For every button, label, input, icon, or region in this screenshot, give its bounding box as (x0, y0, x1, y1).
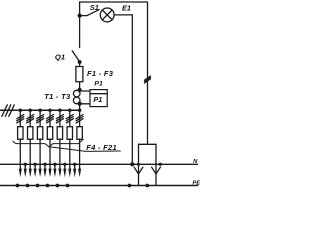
node: PE tap 3 (36, 184, 40, 188)
wire: lamp return vertical (131, 15, 133, 165)
arrow: feeder 7 outgoing (78, 169, 81, 178)
node: busbar junction 2 (28, 108, 32, 112)
wire: feeder drop 4 lower (49, 139, 51, 173)
wire: CT to busbar (79, 104, 81, 110)
node: bridge left drop on N (137, 163, 140, 166)
node: busbar junction 3 (38, 108, 42, 112)
switch S1 blade (87, 10, 99, 16)
wire: tap to switch S1 (80, 15, 87, 17)
wire: feeder drop 1 upper (19, 110, 21, 127)
current transformer T1-T3 (73, 90, 80, 97)
node: PE tap 6 (66, 184, 70, 188)
wire: CT upper tap to meter (80, 90, 90, 92)
underline: F4-F21 label (85, 150, 120, 152)
wire: N tap 2 stem (34, 164, 36, 173)
cable mark: 3-phase slashes on busbar (2, 105, 15, 117)
svg-text:P1: P1 (93, 95, 102, 104)
fuse F4-F21 no.3 (37, 127, 42, 140)
node: N tap 6 (73, 163, 76, 166)
wire: bridge left drop (138, 144, 140, 185)
wire: N tap 3 stem (44, 164, 46, 173)
cable mark: slashes feeder 5 (56, 115, 63, 123)
arrow: open head left (134, 167, 143, 174)
node: N tap 3 (43, 163, 46, 166)
wire: feeder drop 2 upper (29, 110, 31, 127)
arrow: N tap 6 outgoing (73, 169, 76, 178)
leader: F4-F21 label (49, 147, 85, 151)
node: busbar junction 5 (58, 108, 62, 112)
node: PE tap 5 (56, 184, 60, 188)
wire: feeder drop 3 lower (39, 139, 41, 173)
wire: top supply horizontal (80, 1, 148, 3)
wire: feeder drop 3 upper (39, 110, 41, 127)
arrow: N tap 4 outgoing (53, 169, 56, 178)
cable mark: 3-phase slashes on supply line (145, 76, 151, 83)
arrow: feeder 2 outgoing (29, 169, 32, 178)
fuse F4-F21 no.6 (67, 127, 72, 140)
cable mark: slashes feeder 6 (66, 115, 73, 123)
brace: fuse group F4-F21 (13, 139, 83, 146)
node: Q1 lower terminal (78, 60, 82, 64)
node: PE tap 4 (46, 184, 50, 188)
wire: CT lower tap to meter (80, 103, 90, 105)
cable mark: slashes feeder 1 (17, 115, 24, 123)
node: PE junction left of bridge (128, 184, 132, 188)
wire: N tap 5 stem (64, 164, 66, 173)
cable mark: slashes feeder 2 (27, 115, 34, 123)
wire: lamp to right corner (114, 14, 132, 16)
wire: feeder drop 6 lower (69, 139, 71, 173)
wire: feeder drop 7 lower (79, 139, 81, 173)
busbar (0, 109, 80, 111)
svg-text:T1 - T3: T1 - T3 (44, 92, 71, 101)
fuse F1-F3 (76, 67, 83, 82)
wire: PEN bridge horizontal (139, 143, 157, 145)
node: lamp tap junction (78, 14, 82, 18)
arrow: feeder 1 outgoing (19, 169, 22, 178)
fuse F4-F21 no.4 (47, 127, 52, 140)
wire: main feeder upper vertical (79, 2, 81, 48)
node: extra N junction (159, 163, 162, 166)
lamp E1 (100, 8, 114, 22)
wire: feeder drop 7 upper (79, 110, 81, 127)
node: N tap 5 (63, 163, 66, 166)
node: busbar junction 7 (78, 108, 82, 112)
wire: bridge right drop (155, 144, 157, 185)
cable mark: slashes feeder 3 (37, 115, 44, 123)
cable mark: slashes feeder 4 (47, 115, 54, 123)
wire: feeder drop 1 lower (19, 139, 21, 173)
wire: N tap 6 stem (74, 164, 76, 173)
arrow: open head right (152, 167, 161, 174)
arrow: feeder 6 outgoing (68, 169, 71, 178)
fuse F4-F21 no.5 (57, 127, 62, 140)
node: busbar junction 1 (19, 108, 23, 112)
arrow: N tap 3 outgoing (43, 169, 46, 178)
svg-text:S1: S1 (90, 3, 99, 12)
node: N tap 4 (53, 163, 56, 166)
node: lamp to N junction (130, 162, 134, 166)
node: N tap 2 (33, 163, 36, 166)
node: PE tap 1 (16, 184, 20, 188)
wire: feeder drop 5 lower (59, 139, 61, 173)
arrow: N tap 2 outgoing (34, 169, 37, 178)
wire: feeder drop 5 upper (59, 110, 61, 127)
wire: feeder drop 2 lower (29, 139, 31, 173)
wire: Q1 to current transformer (79, 62, 81, 91)
PE line (0, 185, 198, 187)
node: PE tap 2 (26, 184, 30, 188)
svg-text:F1 - F3: F1 - F3 (87, 69, 114, 78)
wire: N tap 1 stem (24, 164, 26, 173)
svg-text:P1: P1 (94, 81, 103, 88)
wire: incoming supply vertical (147, 2, 149, 144)
node: CT lower tap (77, 101, 81, 105)
N line (0, 163, 198, 165)
node: busbar junction 4 (48, 108, 52, 112)
node: N tap 1 (24, 163, 27, 166)
arrow: feeder 4 outgoing (48, 169, 51, 178)
wire: feeder drop 6 upper (69, 110, 71, 127)
svg-text:Q1: Q1 (55, 53, 65, 62)
svg-text:E1: E1 (122, 4, 131, 13)
arrow: feeder 3 outgoing (39, 169, 42, 178)
cable mark: slashes feeder 7 (76, 115, 83, 123)
arrow: N tap 5 outgoing (63, 169, 66, 178)
node: PE junction right of bridge (145, 184, 149, 188)
fuse F4-F21 no.1 (18, 127, 23, 140)
svg-text:PE: PE (192, 181, 200, 187)
switch Q1 blade (72, 51, 79, 62)
meter P1 box (90, 90, 107, 107)
arrow: N tap 1 outgoing (24, 169, 27, 178)
node: busbar junction 6 (68, 108, 72, 112)
wire: N tap 4 stem (54, 164, 56, 173)
arrow: feeder 5 outgoing (58, 169, 61, 178)
fuse F4-F21 no.7 (77, 127, 82, 140)
fuse F4-F21 no.2 (28, 127, 33, 140)
wire: feeder drop 4 upper (49, 110, 51, 127)
node: CT upper tap (78, 88, 82, 92)
